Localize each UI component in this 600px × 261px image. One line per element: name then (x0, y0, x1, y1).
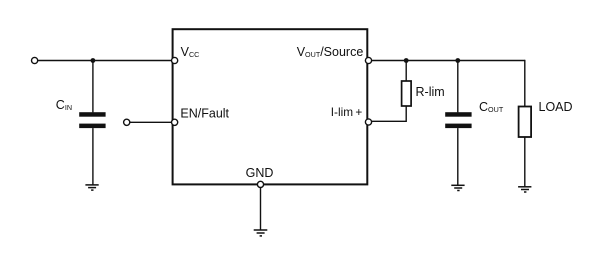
load resistor LOAD (519, 107, 532, 138)
wire rail down to LOAD (524, 60, 526, 107)
node junction at R-lim (404, 58, 409, 63)
capacitor C_OUT (445, 112, 471, 128)
svg-text:I-lim +: I-lim + (331, 105, 363, 119)
wire EN terminal to EN pin (130, 121, 172, 123)
wire Vout rail (372, 60, 525, 62)
op IC box U1 (173, 29, 368, 184)
wire GND pin to ground (260, 188, 262, 230)
ground (under C_IN) (85, 185, 98, 190)
wire junction down to R-lim (405, 61, 407, 82)
wire R-lim to I-lim pin (372, 106, 407, 121)
input terminal (open circle) (31, 57, 37, 63)
svg-text:EN/Fault: EN/Fault (180, 107, 229, 121)
capacitor C_IN (79, 112, 105, 128)
wire input terminal to Vcc pin (38, 60, 172, 62)
ground (under GND pin) (254, 230, 268, 236)
wire Cin to ground (92, 128, 94, 185)
EN input terminal (open circle) (124, 119, 130, 125)
pin EN/Fault (172, 119, 178, 125)
pin I-lim + (365, 119, 371, 125)
pin Vout/Source (365, 57, 371, 63)
node junction at C_OUT (455, 58, 460, 63)
wire LOAD to ground (524, 137, 526, 187)
ground (under LOAD) (518, 187, 531, 192)
pin Vcc (172, 57, 178, 63)
pin GND (257, 181, 263, 187)
svg-text:LOAD: LOAD (539, 100, 573, 114)
svg-text:CIN: CIN (56, 98, 72, 112)
svg-text:R-lim: R-lim (416, 85, 445, 99)
svg-text:COUT: COUT (479, 100, 504, 114)
wire Cout to ground (457, 128, 459, 185)
ground (under C_OUT) (451, 185, 464, 190)
resistor R-lim (402, 81, 412, 106)
svg-text:GND: GND (246, 166, 274, 180)
wire junction down to Cin (92, 61, 94, 113)
wire junction down to Cout (457, 61, 459, 113)
node junction on input rail (91, 58, 96, 63)
